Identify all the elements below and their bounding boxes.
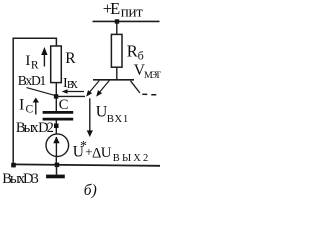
- svg-text:U: U: [101, 145, 112, 161]
- svg-text:ВхD1: ВхD1: [18, 73, 47, 88]
- label Iс: [19, 97, 34, 116]
- svg-text:ВЫХ2: ВЫХ2: [113, 153, 149, 164]
- svg-text:ВХ1: ВХ1: [107, 113, 129, 125]
- svg-text:Вых D2: Вых D2: [16, 120, 54, 136]
- collector dashed continuation: [142, 93, 156, 96]
- svg-text:R: R: [31, 59, 39, 71]
- ground stub: [56, 165, 58, 175]
- transistor Vмэт collector: [131, 81, 140, 93]
- svg-text:R: R: [65, 50, 76, 67]
- svg-text:I: I: [25, 53, 30, 69]
- label Uвх1: [96, 103, 129, 125]
- svg-text:R: R: [127, 42, 138, 61]
- svg-text:C: C: [59, 97, 69, 113]
- voltage arrow Uвх1: [87, 98, 93, 137]
- ground bar: [46, 175, 65, 179]
- wire rail to Rб: [116, 21, 118, 34]
- wire R bottom to capacitor: [55, 83, 57, 112]
- label IR: [25, 53, 39, 71]
- wire capacitor to bottom rail: [55, 119, 57, 165]
- label Rб: [127, 42, 144, 63]
- svg-text:пит: пит: [121, 4, 143, 20]
- current arrow Iс: [33, 98, 39, 115]
- svg-text:б): б): [84, 182, 97, 199]
- svg-text:ВыхD3: ВыхD3: [2, 171, 39, 187]
- capacitor C bottom plate: [43, 118, 74, 121]
- svg-text:МЭТ: МЭТ: [144, 70, 161, 81]
- label U*+ΔUвых2: [73, 139, 149, 164]
- wire node to emitter: [56, 95, 85, 97]
- wire Rб to base of Vмэт: [116, 67, 118, 80]
- bottom rail wire: [13, 164, 160, 165]
- svg-text:ВХ: ВХ: [67, 80, 79, 91]
- wire box top: [13, 38, 56, 46]
- transistor Vмэт emitter 2: [96, 81, 109, 97]
- resistor Rб: [111, 34, 122, 67]
- leader line ВхD1 to node: [27, 88, 55, 96]
- svg-text:б: б: [138, 48, 144, 62]
- transistor Vмэт emitter 1: [86, 81, 99, 97]
- node ВыхD2 junction: [54, 124, 59, 129]
- node ВхD1 junction: [54, 94, 58, 98]
- wire +Eпит supply rail: [93, 20, 160, 22]
- svg-text:С: С: [26, 104, 34, 116]
- junction dot on +E rail: [115, 19, 119, 23]
- capacitor C top plate: [43, 111, 74, 114]
- svg-text:+E: +E: [103, 0, 121, 18]
- source arrow: [53, 137, 60, 157]
- transistor Vмэт base bar: [93, 79, 134, 81]
- source U circle: [46, 134, 69, 157]
- current arrow Iвх: [62, 89, 84, 94]
- svg-text:I: I: [19, 97, 24, 114]
- junction dot at ground stub: [55, 163, 60, 168]
- label Iвх: [63, 76, 79, 91]
- wire left rail: [12, 38, 14, 166]
- net label +Eпит: [103, 0, 144, 20]
- current arrow IR: [41, 47, 47, 67]
- label Vмэт: [134, 62, 161, 81]
- resistor R: [51, 46, 62, 83]
- node ВыхD3 junction: [11, 163, 16, 168]
